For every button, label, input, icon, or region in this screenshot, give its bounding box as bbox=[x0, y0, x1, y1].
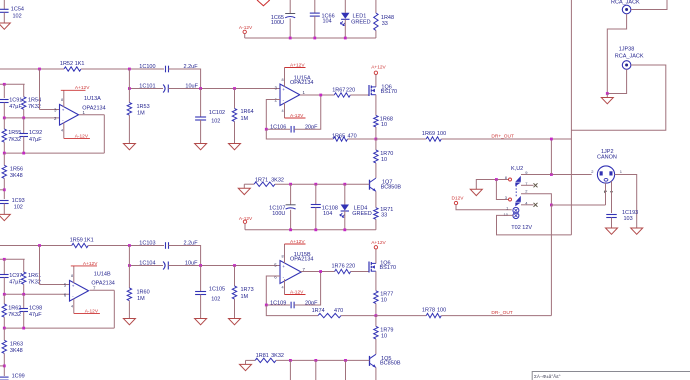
junction rail/1C107 bbox=[289, 228, 292, 231]
svg-text:1R60: 1R60 bbox=[137, 289, 150, 295]
resistor 1R64 bbox=[232, 109, 236, 122]
svg-text:1M: 1M bbox=[241, 294, 249, 300]
svg-text:10: 10 bbox=[381, 334, 387, 340]
svg-text:GREED: GREED bbox=[351, 20, 371, 26]
svg-text:1C99: 1C99 bbox=[12, 374, 25, 380]
svg-text:104: 104 bbox=[323, 211, 332, 217]
junction pin6 line left bbox=[3, 293, 6, 296]
svg-text:+: + bbox=[72, 283, 75, 288]
resistor 1R62 bbox=[2, 304, 6, 317]
capacitor 1C105 bbox=[195, 291, 206, 293]
resistor 1R67 bbox=[334, 93, 350, 97]
wire 1C97 to pin6 line bbox=[3, 278, 5, 295]
svg-text:100U: 100U bbox=[271, 20, 284, 26]
no-connect X pin 4 bbox=[534, 203, 538, 207]
wire LED1 bottom bbox=[344, 19, 346, 38]
svg-text:A-12V: A-12V bbox=[290, 290, 304, 296]
wire 1R52 to 1C100 bbox=[81, 68, 164, 70]
junction rail/1C66 bbox=[313, 37, 316, 40]
capacitor 1C97 bbox=[0, 274, 9, 276]
svg-text:1C104: 1C104 bbox=[139, 261, 155, 267]
wire feed line top channel bbox=[0, 83, 25, 85]
svg-text:4: 4 bbox=[282, 109, 284, 113]
wire 1U15A output bbox=[300, 94, 334, 96]
wire 1R74 to source node bbox=[341, 315, 376, 317]
svg-text:RCA_JACK: RCA_JACK bbox=[615, 54, 644, 60]
wire left stub bottom bbox=[0, 365, 4, 367]
wire 1C54 to ground bbox=[3, 12, 5, 23]
svg-text:1C93: 1C93 bbox=[12, 198, 25, 204]
svg-text:470: 470 bbox=[334, 308, 343, 314]
junction pin2 line left bbox=[3, 117, 6, 120]
svg-text:DR-_OUT: DR-_OUT bbox=[491, 310, 512, 316]
power circle A+12V bottom bbox=[374, 246, 377, 249]
capacitor 1C92 bbox=[19, 133, 28, 135]
svg-text:OPA2134: OPA2134 bbox=[290, 257, 313, 263]
svg-text:100U: 100U bbox=[272, 211, 285, 217]
svg-text:1R69: 1R69 bbox=[422, 131, 435, 137]
capacitor 1C108 bbox=[311, 204, 321, 206]
svg-text:10: 10 bbox=[504, 212, 509, 217]
svg-text:1U14B: 1U14B bbox=[94, 272, 111, 278]
junction input/pin5 tap bottom bbox=[38, 244, 41, 247]
svg-text:1R81: 1R81 bbox=[256, 353, 269, 359]
svg-text:1U13A: 1U13A bbox=[84, 96, 101, 102]
junction DR- node bbox=[375, 314, 378, 317]
svg-text:A-12V: A-12V bbox=[85, 309, 99, 315]
svg-text:1C103: 1C103 bbox=[139, 241, 155, 247]
wire 1C109 right up to output bbox=[294, 272, 321, 306]
ground below jacks bbox=[601, 98, 613, 104]
svg-text:3K48: 3K48 bbox=[10, 348, 23, 354]
junction bias/1C108 bbox=[314, 183, 317, 186]
resistor 1R54 bbox=[22, 97, 26, 110]
svg-text:10: 10 bbox=[381, 157, 387, 163]
svg-text:1M: 1M bbox=[137, 296, 145, 302]
ground below 1C93 bbox=[0, 214, 10, 220]
resistor 1R70 bbox=[374, 150, 378, 163]
wire relay pin7 nc bbox=[521, 184, 534, 186]
wire 1C108 top bbox=[315, 184, 317, 204]
junction 1C101 left bbox=[128, 87, 131, 90]
svg-text:BC850B: BC850B bbox=[381, 185, 402, 191]
capacitor 1C54 bbox=[0, 8, 9, 10]
resistor 1R71b bbox=[374, 208, 378, 220]
wire 1U13A pin8 V+ bbox=[63, 90, 65, 107]
svg-text:8: 8 bbox=[282, 254, 284, 258]
junction rail/1C65 bbox=[289, 37, 292, 40]
wire pin2 node down to 1R65 line bbox=[266, 129, 333, 139]
svg-text:1R76: 1R76 bbox=[332, 264, 345, 270]
wire DR+ drop to pin9 line bbox=[550, 139, 552, 175]
wire jack2 sleeve bbox=[607, 69, 626, 93]
wire feed down left bottom bbox=[3, 259, 5, 274]
pin 8 circle of relay bbox=[509, 178, 512, 181]
wire 1C66 top bbox=[314, 0, 316, 13]
svg-text:33: 33 bbox=[382, 21, 388, 27]
wire 1R63 to 1C99 bbox=[3, 353, 5, 376]
svg-text:1R59: 1R59 bbox=[70, 238, 83, 244]
wire 1Q7 emitter to 1R71 bbox=[375, 191, 377, 207]
junction coupling caps bbox=[199, 87, 202, 90]
junction feed/1C97 bbox=[3, 258, 6, 261]
wire A-12V rail mid bbox=[245, 229, 376, 231]
wire 1C106 right up to output bbox=[294, 95, 321, 129]
wire long vertical net bbox=[570, 0, 572, 235]
wire pin3 tap vertical bbox=[39, 69, 41, 110]
svg-text:220: 220 bbox=[346, 87, 355, 93]
wire gnd stem bias bottom bbox=[245, 360, 247, 364]
resistor 1R78 bbox=[426, 313, 441, 317]
wire A+12V to drain bbox=[375, 75, 377, 87]
wire 1U15A pin8 V+ bbox=[284, 68, 286, 87]
wire input line bottom channel bbox=[0, 245, 72, 247]
wire to relay pin3 bbox=[496, 180, 508, 200]
wire gnd to 1R81 bbox=[246, 359, 256, 361]
svg-text:1JP38: 1JP38 bbox=[619, 47, 635, 53]
wire CANON pin3 to cap bbox=[611, 181, 613, 213]
wire 1R60 to ground bbox=[128, 301, 130, 319]
wire feedback line 1U13A bbox=[4, 152, 104, 154]
svg-text:7K32: 7K32 bbox=[8, 312, 21, 318]
capacitor 1C91 bbox=[0, 99, 9, 101]
wire 1C193 to ground bbox=[611, 218, 613, 229]
transistor 1Q6 BS170 bbox=[368, 85, 370, 96]
power circle D12V bbox=[454, 201, 457, 204]
svg-text:1C109: 1C109 bbox=[270, 300, 286, 306]
junction relay pin2 node bbox=[550, 204, 553, 207]
wire 1C91 to pin2 line bbox=[3, 103, 5, 118]
power rail A-12V of 1U13A bbox=[64, 137, 90, 139]
wire feedback line 1U14B bbox=[4, 327, 114, 329]
junction bias/1C107 bbox=[289, 183, 292, 186]
junction left stub bbox=[3, 188, 6, 191]
wire 1C98 top bbox=[23, 294, 25, 308]
relay actuator dashed link bbox=[515, 185, 517, 197]
wire down to 1C105 bbox=[200, 266, 202, 292]
resistor 1R56 bbox=[2, 165, 6, 178]
wire 1R56 to 1C93 bbox=[3, 178, 5, 199]
transistor 1Q6 BS170 bottom bbox=[368, 262, 370, 273]
junction output/1C109 bbox=[319, 270, 322, 273]
svg-text:47µF: 47µF bbox=[9, 104, 22, 110]
resistor 1R59 bbox=[72, 243, 89, 247]
junction relay pin8/pin3 feed bbox=[495, 178, 498, 181]
resistor 1R76 bbox=[335, 269, 351, 273]
ground below 1R64 bbox=[229, 144, 241, 150]
capacitor 1C100 bbox=[165, 66, 167, 73]
svg-text:A+12V: A+12V bbox=[75, 85, 90, 91]
svg-text:GREED: GREED bbox=[352, 211, 372, 217]
svg-text:10: 10 bbox=[381, 122, 387, 128]
wire 1C66 bottom bbox=[314, 16, 316, 38]
power rail A+12V of 1U13A bbox=[61, 89, 86, 91]
wire CANON pin1 to ground bbox=[615, 175, 637, 229]
svg-text:DR+_OUT: DR+_OUT bbox=[491, 134, 514, 140]
wire bias cap 1 stub bbox=[289, 360, 291, 380]
power circle A-12V top bbox=[243, 30, 246, 33]
junction input/pin3 tap bbox=[38, 68, 41, 71]
wire down to 1R60 bbox=[128, 246, 130, 289]
wire LED4 bottom bbox=[344, 211, 346, 230]
wire bias cap 3 stub bbox=[345, 360, 347, 380]
wire feed down right bbox=[23, 84, 25, 97]
svg-text:A+12V: A+12V bbox=[371, 240, 386, 246]
wire CANON shield pin down bbox=[605, 183, 607, 205]
resistor 1R77 bbox=[374, 291, 378, 304]
svg-text:1K1: 1K1 bbox=[75, 61, 85, 67]
svg-text:103: 103 bbox=[624, 216, 633, 222]
ground below 1C102 bbox=[195, 144, 207, 150]
svg-text:A+12V: A+12V bbox=[371, 64, 386, 70]
relay contact top bbox=[515, 176, 521, 182]
svg-text:102: 102 bbox=[211, 119, 220, 125]
wire 1R53 to ground bbox=[128, 115, 130, 143]
op-amp 1U15A bbox=[280, 84, 300, 106]
svg-text:8: 8 bbox=[282, 78, 284, 82]
capacitor 1C66 bbox=[310, 12, 320, 14]
svg-text:ΣÀ¬Φ±å°Å£°: ΣÀ¬Φ±å°Å£° bbox=[534, 373, 561, 379]
wire 1C105 to ground bbox=[200, 295, 202, 319]
wire relay pin10 route bbox=[497, 215, 572, 235]
svg-text:+: + bbox=[62, 107, 65, 112]
svg-text:OPA2134: OPA2134 bbox=[91, 280, 114, 286]
svg-text:4: 4 bbox=[61, 128, 63, 132]
relay coil K,U2 bbox=[513, 207, 519, 213]
svg-text:1C102: 1C102 bbox=[209, 110, 225, 116]
junction fb line right bbox=[22, 152, 25, 155]
capacitor 1C193 bbox=[606, 214, 617, 216]
wire 1U14B output bbox=[90, 289, 115, 291]
wire fb vertical from output bbox=[103, 115, 105, 153]
ground at CANON pin1 bbox=[631, 228, 643, 234]
wire 1U13A pin4 V- bbox=[63, 123, 65, 139]
wire 1R68 to DR+ node bbox=[375, 127, 377, 139]
wire 1U15B pin4 V- bbox=[284, 279, 286, 294]
junction feed/1C91 bbox=[3, 83, 6, 86]
op-amp 1U14B bbox=[70, 280, 89, 301]
wire jack1 sleeve bbox=[607, 14, 626, 94]
svg-text:3K48: 3K48 bbox=[10, 173, 23, 179]
wire A-12V stem top bbox=[244, 34, 246, 38]
svg-text:1C91: 1C91 bbox=[9, 98, 22, 104]
capacitor 1C65 bbox=[285, 13, 295, 15]
svg-text:T02 12V: T02 12V bbox=[511, 225, 532, 231]
svg-text:D12V: D12V bbox=[452, 196, 465, 202]
wire LED1 top bbox=[344, 0, 346, 13]
wire 1R70 to 1Q7 collector bbox=[375, 163, 377, 178]
wire 1R62 top bbox=[3, 294, 5, 304]
wire 1R63 top bbox=[3, 328, 5, 340]
wire 1C107 bottom bbox=[290, 210, 292, 230]
wire op-amp 1U13A pin2 line bbox=[4, 117, 59, 119]
svg-text:A-12V: A-12V bbox=[239, 216, 253, 222]
svg-text:BS170: BS170 bbox=[381, 89, 398, 95]
wire 1U15A pin4 V- bbox=[284, 103, 286, 118]
capacitor 1C104 polarized bbox=[167, 262, 169, 270]
wire DR- left segment bbox=[376, 315, 426, 317]
svg-text:102: 102 bbox=[13, 13, 22, 19]
capacitor 1C103 bbox=[165, 242, 167, 249]
capacitor 1C93 bbox=[0, 200, 9, 202]
svg-text:1R63: 1R63 bbox=[10, 342, 23, 348]
wire 1C65 top bbox=[289, 0, 291, 13]
svg-text:A+12V: A+12V bbox=[290, 239, 305, 245]
junction DR+ node bbox=[375, 138, 378, 141]
junction pin9/DR+ drop bbox=[550, 173, 553, 176]
wire 1U15B output bbox=[301, 271, 335, 273]
svg-text:RCA_JACK: RCA_JACK bbox=[611, 0, 640, 5]
resistor 1R65 bbox=[333, 137, 347, 141]
wire DR- to right bbox=[441, 315, 551, 317]
svg-text:BC850B: BC850B bbox=[380, 361, 401, 367]
junction pin6 line right bbox=[22, 293, 25, 296]
resistor 1R73 bbox=[232, 286, 236, 299]
svg-text:A-12V: A-12V bbox=[290, 113, 304, 119]
capacitor 1C106 bbox=[290, 126, 292, 133]
wire fb vertical from output 1U14B bbox=[113, 290, 115, 328]
svg-text:4: 4 bbox=[282, 285, 284, 289]
wire 1U15B pin6 bbox=[266, 276, 280, 305]
no-connect X pin 7 bbox=[534, 183, 538, 187]
wire D12V to relay pin1 bbox=[456, 205, 512, 210]
power circle A+12V top bbox=[374, 71, 377, 74]
wire bias line to 1Q5 base bbox=[276, 359, 370, 361]
wire 1C109 left bbox=[266, 304, 290, 306]
wire 1R67 to gate bbox=[350, 94, 369, 96]
ground near relay bbox=[470, 189, 482, 195]
svg-text:8: 8 bbox=[71, 274, 73, 278]
svg-text:1C54: 1C54 bbox=[11, 6, 24, 12]
svg-text:1C101: 1C101 bbox=[139, 84, 155, 90]
power rail A-12V of 1U15A bbox=[285, 117, 306, 119]
svg-text:OPA2134: OPA2134 bbox=[290, 80, 313, 86]
wire left stub bbox=[0, 189, 4, 191]
wire relay gnd feed bbox=[476, 180, 508, 190]
svg-text:1R56: 1R56 bbox=[10, 167, 23, 173]
svg-text:+: + bbox=[282, 264, 285, 269]
svg-text:102: 102 bbox=[211, 297, 220, 303]
junction rail/LED1 bbox=[344, 37, 347, 40]
title block border bbox=[532, 372, 690, 380]
svg-text:1R53: 1R53 bbox=[137, 104, 150, 110]
resistor 1R53 bbox=[127, 103, 131, 116]
junction left stub bottom bbox=[3, 365, 6, 368]
svg-text:1R65: 1R65 bbox=[332, 134, 345, 140]
pin arrow right of 1JP2 bbox=[610, 190, 612, 193]
svg-text:100: 100 bbox=[437, 308, 446, 314]
ground bias line bottom bbox=[240, 364, 252, 370]
junction jack sleeves bbox=[606, 92, 609, 95]
junction fb bottom left bbox=[3, 327, 6, 330]
wire 1R62 to fb line bbox=[3, 317, 5, 328]
svg-text:1C98: 1C98 bbox=[29, 305, 42, 311]
wire 1U15A pin2 bbox=[266, 100, 280, 130]
svg-text:102: 102 bbox=[14, 205, 23, 211]
wire bias cap 2 stub bbox=[315, 360, 317, 380]
svg-text:1C92: 1C92 bbox=[29, 130, 42, 136]
wire 1R48 bottom bbox=[375, 30, 377, 38]
transistor 1Q5 BC850B bbox=[369, 356, 371, 366]
svg-text:7K32: 7K32 bbox=[28, 104, 41, 110]
wire 1R55 top bbox=[3, 118, 5, 129]
svg-text:47µF: 47µF bbox=[9, 280, 22, 286]
wire 1C107 top bbox=[290, 184, 292, 204]
resistor 1R81 bbox=[255, 358, 276, 362]
wire feed line bottom channel bbox=[0, 258, 25, 260]
wire jack2 signal bbox=[571, 65, 665, 130]
power rail A-12V of 1U15B bbox=[285, 294, 306, 296]
wire pin2 node to CANON shield pin bbox=[551, 204, 605, 206]
LED LED1 bbox=[341, 13, 349, 19]
junction 1R73 tap bbox=[233, 264, 236, 267]
svg-text:1C97: 1C97 bbox=[9, 273, 22, 279]
wire 1R54 to pin2 line bbox=[23, 109, 25, 118]
wire LED4 top bbox=[344, 184, 346, 204]
svg-text:3K32: 3K32 bbox=[271, 353, 284, 359]
wire pin2 node down to DR- bbox=[550, 205, 552, 316]
wire down to 1C102 bbox=[200, 89, 202, 118]
svg-text:8: 8 bbox=[61, 98, 63, 102]
wire DR+ to right bbox=[441, 138, 571, 140]
wire relay pin2 route bbox=[521, 194, 551, 205]
capacitor 1C99 bbox=[0, 376, 9, 378]
wire 1R48 top bbox=[375, 0, 377, 13]
junction bias bottom 3 bbox=[344, 359, 347, 362]
wire 1R64 to ground bbox=[234, 122, 236, 144]
capacitor 1C107 bbox=[286, 204, 296, 206]
svg-text:1M: 1M bbox=[241, 116, 249, 122]
svg-text:CANON: CANON bbox=[597, 154, 617, 160]
junction rail/1C108 bbox=[314, 228, 317, 231]
junction output/1C106 bbox=[319, 94, 322, 97]
svg-text:47µF: 47µF bbox=[29, 312, 42, 318]
svg-text:220: 220 bbox=[346, 264, 355, 270]
wire down to 1R64 bbox=[234, 89, 236, 109]
wire relay pin9 to CANON pin2 bbox=[521, 174, 592, 176]
resistor 1R69 bbox=[426, 137, 441, 141]
wire down to 1R53 bbox=[128, 69, 130, 103]
wire 1R71 to rail bbox=[375, 219, 377, 230]
junction coupling caps bottom bbox=[199, 264, 202, 267]
wire 1C104 line bbox=[129, 265, 163, 267]
junction pin2 line right bbox=[22, 117, 25, 120]
wire 1R79 to 1Q5 collector bbox=[375, 339, 377, 354]
junction 1R64 tap bbox=[233, 87, 236, 90]
junction rail/LED4 bbox=[343, 228, 346, 231]
ground below 1C105 bbox=[195, 319, 207, 325]
wire 1C65 bottom bbox=[289, 19, 291, 39]
ground below 1R53 bbox=[123, 144, 135, 150]
wire DR- node to 1R79 bbox=[375, 316, 377, 327]
junction 1C106 line bbox=[265, 128, 268, 131]
wire 1C104 to op-amp 1U15B pin5 bbox=[168, 265, 280, 267]
wire relay pin4 nc bbox=[521, 204, 534, 206]
svg-text:1K1: 1K1 bbox=[84, 238, 94, 244]
resistor 1R52 bbox=[64, 67, 81, 71]
junction bias bottom 1 bbox=[289, 359, 292, 362]
svg-text:3K32: 3K32 bbox=[271, 177, 284, 183]
wire pin6 node down to 1R74 line bbox=[266, 305, 318, 316]
wire source to 1R68 bbox=[375, 95, 377, 116]
svg-text:7K32: 7K32 bbox=[28, 280, 41, 286]
wire 1R76 to gate bbox=[351, 271, 369, 273]
junction 1C104 left bbox=[128, 264, 131, 267]
relay contact bottom bbox=[515, 196, 521, 202]
RCA jack 1JP38 bbox=[622, 61, 631, 70]
wire 1C92 to fb line bbox=[23, 137, 25, 154]
wire 1Q5 emitter down bbox=[375, 368, 377, 380]
